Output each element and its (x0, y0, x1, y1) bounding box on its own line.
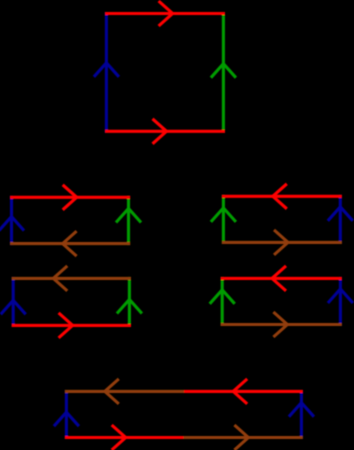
rect D bottom edge arrow (brown chevron, points right) (274, 230, 288, 255)
rect F bottom-left edge segment (red, right) (65, 436, 184, 439)
rect F top-left arrow (brown chevron, points left) (105, 379, 119, 404)
rect D left edge (green, up) (222, 195, 225, 244)
rect C bottom edge (red, right) (12, 324, 131, 327)
rect E right edge (blue, up) (339, 277, 342, 326)
rect F top-right edge segment (red, left) (184, 390, 303, 393)
rect B right edge arrow (green chevron, points up) (116, 209, 141, 223)
rect B bottom edge (brown, left) (10, 242, 130, 245)
rect D bottom edge (brown, right) (222, 241, 342, 244)
rect F top-left edge segment (brown, left) (65, 390, 184, 393)
square A top edge arrow (red chevron, points right) (159, 1, 173, 26)
rect F bottom-right arrow (brown chevron, points right) (234, 425, 248, 450)
rect D top edge arrow (red chevron, points left) (273, 184, 287, 209)
rect F right edge arrow (blue chevron, points up) (289, 403, 314, 417)
rect B bottom edge arrow (brown chevron, points left) (63, 231, 77, 256)
rect D right edge arrow (blue chevron, points up) (328, 207, 353, 221)
square A right edge arrow (green chevron, points up) (211, 64, 236, 78)
rect F left edge (blue, up) (65, 390, 68, 439)
rect B top edge (red, right) (10, 196, 130, 199)
rect D left edge arrow (green chevron, points up) (211, 208, 236, 222)
rect F bottom-left arrow (red chevron, points right) (112, 425, 126, 450)
rect B left edge arrow (blue chevron, points up) (0, 217, 24, 231)
rect E left edge (green, up) (221, 277, 224, 326)
rect C right edge (green, up) (128, 277, 131, 327)
rect F bottom-right edge segment (brown, right) (184, 436, 303, 439)
rect E top edge (red, left) (221, 277, 342, 280)
rect B top edge arrow (red chevron, points right) (63, 185, 77, 210)
rect C left edge arrow (blue chevron, points up) (1, 300, 26, 314)
rect E top edge arrow (red chevron, points left) (272, 266, 286, 291)
rect E left edge arrow (green chevron, points up) (210, 290, 235, 304)
rect E right edge arrow (blue chevron, points up) (328, 289, 353, 303)
square A left edge arrow (blue chevron, points up) (94, 63, 119, 77)
rect B right edge (green, up) (127, 196, 130, 245)
rect F left edge arrow (blue chevron, points up) (54, 412, 79, 426)
rect D right edge (blue, up) (339, 195, 342, 244)
rect C top edge arrow (brown chevron, points left) (53, 266, 67, 291)
rect E bottom edge (brown, right) (221, 323, 342, 326)
rect C top edge (brown, left) (12, 277, 131, 280)
rect F right edge (blue, up) (300, 390, 303, 439)
rect C left edge (blue, up) (12, 277, 15, 327)
rect F top-right arrow (red chevron, points left) (233, 379, 247, 404)
rect E bottom edge arrow (brown chevron, points right) (273, 312, 287, 337)
rect C bottom edge arrow (red chevron, points right) (59, 313, 73, 338)
rect C right edge arrow (green chevron, points up) (117, 300, 142, 314)
square A top edge a (red, right) (105, 12, 225, 15)
square A bottom edge a (red, right) (105, 130, 225, 133)
rect D top edge (red, left) (222, 195, 342, 198)
rect B left edge (blue, up) (10, 196, 13, 245)
square A left edge b (blue, up) (105, 12, 108, 133)
square A bottom edge arrow (red chevron, points right) (153, 119, 167, 144)
square A right edge c (green, up) (222, 12, 225, 133)
